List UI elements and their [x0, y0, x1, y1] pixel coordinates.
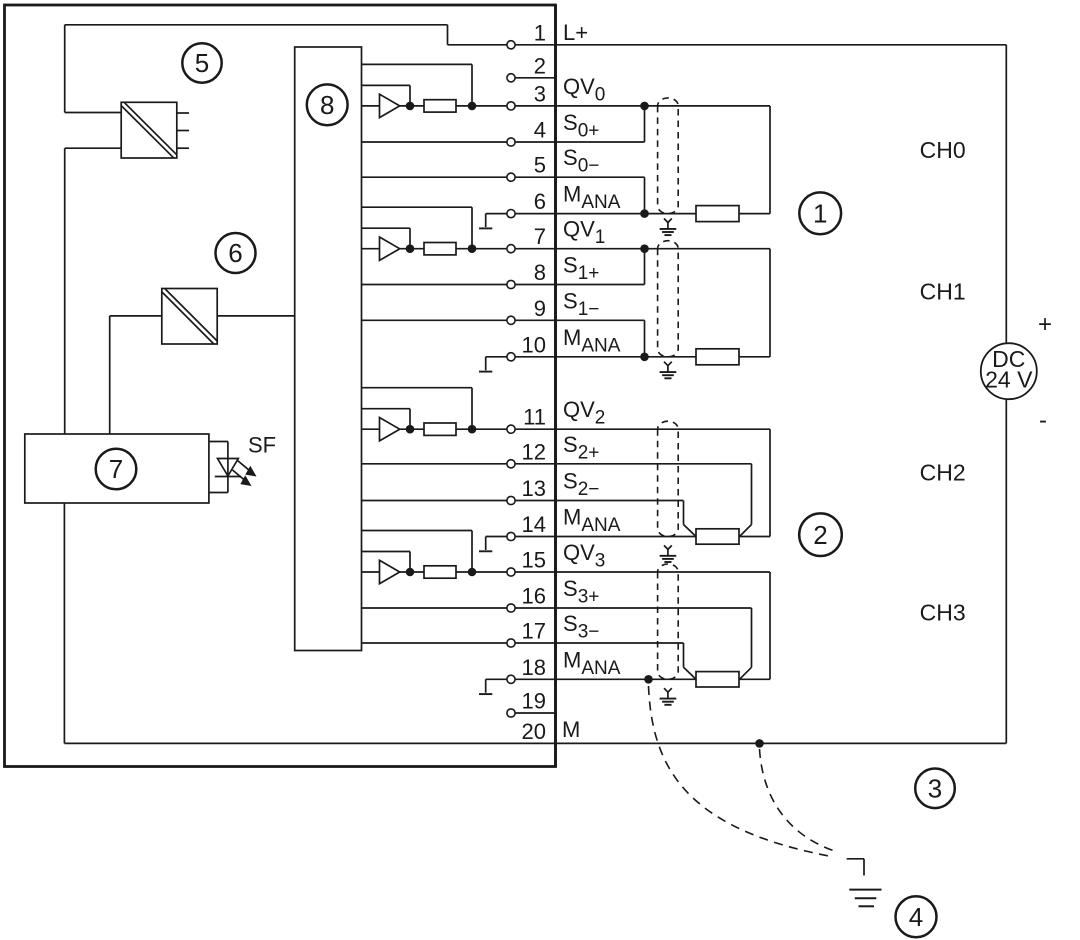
terminal 11 circle — [507, 425, 515, 433]
svg-text:9: 9 — [534, 296, 546, 321]
terminal 19 number — [522, 689, 546, 714]
op-amp CH3 output driver — [380, 560, 425, 583]
svg-text:-: - — [1039, 407, 1047, 434]
wire S0- jumper — [515, 177, 644, 213]
terminal 4 circle — [507, 138, 515, 146]
label S1− terminal 9 — [563, 288, 599, 320]
label MANA terminal 14 — [563, 505, 621, 537]
svg-text:2: 2 — [534, 53, 546, 78]
svg-text:SF: SF — [248, 433, 276, 458]
svg-text:24 V: 24 V — [985, 367, 1033, 393]
svg-text:CH2: CH2 — [920, 459, 966, 485]
terminal 3 circle — [507, 102, 515, 110]
LED arrows — [233, 461, 257, 487]
svg-text:3: 3 — [534, 81, 546, 106]
terminal 14 circle — [507, 532, 515, 540]
terminal 12 circle — [507, 460, 515, 468]
terminal 16 number — [522, 584, 546, 609]
terminal 18 circle — [507, 675, 515, 683]
terminal 9 number — [534, 296, 546, 321]
shield earth CH0 — [660, 219, 677, 236]
wire M bus vertical lower — [63, 503, 65, 743]
module enclosure (analog output module boundary) — [5, 5, 556, 767]
wire sense terminal 12 internal — [362, 463, 507, 465]
wire load CH0 return — [739, 106, 770, 214]
wire sense terminal 4 internal — [362, 141, 507, 143]
junction CH0 amp output — [406, 102, 415, 111]
terminal 7 number — [534, 224, 546, 249]
terminal 13 number — [522, 476, 546, 501]
callout 1 — [799, 192, 841, 234]
terminal 1 number — [534, 20, 546, 45]
terminal 16 circle — [507, 604, 515, 612]
svg-text:15: 15 — [522, 548, 546, 573]
callout 2 — [799, 513, 842, 556]
svg-text:CH3: CH3 — [920, 599, 966, 625]
terminal block edge (module right border) — [554, 5, 557, 767]
svg-text:4: 4 — [534, 118, 546, 143]
label S3+ terminal 16 — [563, 576, 599, 608]
resistor CH1 internal — [424, 243, 456, 255]
svg-text:7: 7 — [534, 224, 546, 249]
DC 24V source — [981, 343, 1037, 399]
terminal 10 number — [522, 332, 546, 357]
resistor CH0 internal — [424, 100, 456, 112]
wire converter 5 lower pin — [65, 147, 122, 149]
svg-text:14: 14 — [522, 512, 546, 537]
svg-text:5: 5 — [534, 153, 546, 178]
wire resistor to terminal — [456, 428, 507, 430]
label CH0 — [920, 137, 966, 163]
resistor CH2 internal — [424, 423, 456, 435]
label M — [562, 717, 580, 742]
earth ground symbol — [849, 890, 881, 907]
wire L+ bus drop to terminal 1 — [447, 25, 449, 45]
junction CH1 output node — [468, 244, 477, 253]
terminal 15 circle — [507, 568, 515, 576]
label S0− terminal 5 — [563, 145, 599, 177]
label MANA terminal 10 — [563, 325, 621, 357]
junction M earth link — [755, 739, 764, 748]
load resistor CH0 — [696, 206, 739, 222]
svg-text:11: 11 — [523, 405, 546, 430]
power supply converter 6 body — [162, 289, 217, 345]
wire QV3 to load — [515, 572, 770, 679]
wire sense terminal 5 internal — [362, 176, 507, 178]
label S3− terminal 17 — [563, 611, 599, 643]
interface box 8 body — [295, 47, 362, 651]
wire L+ bus top — [65, 24, 448, 26]
wire resistor to terminal — [456, 248, 507, 250]
svg-text:5: 5 — [195, 48, 209, 78]
junction MANA earth link — [644, 675, 653, 684]
wire S1- jumper — [515, 320, 644, 357]
svg-text:12: 12 — [522, 439, 546, 464]
junction CH1 amp output — [406, 244, 415, 253]
terminal 10 circle — [507, 353, 515, 361]
internal MANA ground hook terminal 14 — [479, 537, 507, 552]
junction CH3 amp output — [406, 568, 415, 577]
svg-text:4: 4 — [909, 902, 923, 932]
wire M bus vertical upper — [64, 148, 66, 434]
terminal 19 circle — [507, 709, 515, 717]
label L+ — [563, 20, 588, 45]
wire into converter 5 upper pin — [65, 112, 122, 114]
terminal 11 number — [523, 405, 546, 430]
op-amp CH2 output driver — [380, 418, 425, 441]
wire converter 6 left drop to box 7 — [109, 316, 111, 434]
wire L+ bus left vertical — [64, 25, 66, 113]
wire resistor to terminal — [456, 571, 507, 573]
wire QV2 to load — [515, 429, 770, 536]
terminal 20 number — [522, 719, 546, 744]
wire sense terminal 17 internal — [362, 642, 507, 644]
wire MANA CH3 — [515, 678, 696, 680]
wire QV0 to load — [515, 105, 770, 107]
terminal 3 number — [534, 81, 546, 106]
label S2+ terminal 12 — [563, 432, 599, 464]
svg-text:8: 8 — [534, 260, 546, 285]
terminal 2 number — [534, 53, 546, 78]
callout 3 — [915, 769, 955, 809]
terminal 8 circle — [507, 280, 515, 288]
label - — [1039, 407, 1047, 434]
op-amp CH1 output driver — [380, 237, 425, 260]
wire sense terminal 9 internal — [362, 319, 507, 321]
label QV1 terminal 7 — [563, 217, 605, 249]
terminal 13 circle — [507, 496, 515, 504]
junction CH0 output node — [468, 102, 477, 111]
wires DAC channel 1 — [362, 207, 473, 249]
svg-text:16: 16 — [522, 584, 546, 609]
terminal 5 circle — [507, 173, 515, 181]
wire terminal 1 internal — [448, 44, 507, 46]
op-amp CH0 output driver — [380, 94, 425, 117]
load resistor CH3 — [696, 672, 739, 687]
junction CH3 output node — [468, 568, 477, 577]
junction MANA/S0- — [640, 209, 649, 218]
callout 4 — [896, 896, 937, 937]
wire converter 6 right to box 8 — [217, 315, 295, 317]
wire S3+ to load — [515, 608, 751, 679]
terminal 18 number — [522, 655, 546, 680]
terminal 14 number — [522, 512, 546, 537]
load resistor CH1 — [696, 349, 739, 365]
terminal 2 circle — [507, 74, 515, 82]
wire terminal 2 stub — [515, 77, 555, 79]
controller box 7 body — [25, 434, 209, 503]
label QV0 terminal 3 — [563, 74, 605, 106]
internal MANA ground hook terminal 6 — [479, 214, 507, 229]
label S2− terminal 13 — [563, 469, 599, 501]
resistor CH3 internal — [424, 566, 456, 578]
wire L+ external — [515, 44, 1006, 46]
terminal 17 number — [522, 619, 546, 644]
internal MANA ground hook terminal 10 — [479, 357, 507, 372]
converter 5 output pins — [177, 113, 189, 148]
label SF — [248, 433, 276, 458]
svg-text:18: 18 — [522, 655, 546, 680]
wire S2- to load — [515, 501, 696, 537]
svg-text:1: 1 — [813, 199, 827, 229]
svg-text:8: 8 — [320, 90, 334, 120]
load resistor CH2 — [696, 529, 739, 544]
label CH1 — [920, 279, 966, 305]
svg-text:10: 10 — [522, 332, 546, 357]
shield earth CH2 — [660, 545, 677, 562]
svg-text:7: 7 — [109, 454, 123, 484]
cable shield CH3 — [658, 564, 679, 679]
wire MANA CH0 — [515, 213, 696, 215]
cable shield CH1 — [658, 241, 679, 357]
wires DAC channel 2 — [362, 388, 473, 430]
label CH2 — [920, 459, 966, 485]
svg-text:CH0: CH0 — [920, 137, 966, 163]
label MANA terminal 6 — [563, 182, 621, 214]
svg-text:2: 2 — [813, 520, 827, 550]
label CH3 — [920, 599, 966, 625]
terminal 4 number — [534, 118, 546, 143]
junction QV0/S0+ — [640, 102, 649, 111]
wire supply bus lower — [1005, 399, 1007, 743]
wire S3- to load — [515, 643, 696, 679]
wire S0+ jumper — [515, 106, 644, 142]
junction MANA/S1- — [640, 353, 649, 362]
wire sense terminal 13 internal — [362, 500, 507, 502]
earth lead solid corner — [847, 859, 864, 876]
terminal 1 circle — [507, 41, 515, 49]
terminal 8 number — [534, 260, 546, 285]
terminal 6 circle — [507, 210, 515, 218]
junction CH2 amp output — [406, 425, 415, 434]
wire QV1 to load — [515, 248, 770, 250]
internal MANA ground hook terminal 18 — [479, 679, 507, 694]
dashed earth lead from M — [760, 749, 837, 852]
wire sense terminal 8 internal — [362, 284, 507, 286]
power supply converter 5 body — [121, 102, 177, 158]
callout 5 — [182, 43, 221, 82]
terminal 17 circle — [507, 639, 515, 647]
shield earth CH1 — [660, 362, 677, 379]
wire resistor to terminal — [456, 105, 507, 107]
svg-text:1: 1 — [534, 20, 546, 45]
wire sense terminal 16 internal — [362, 607, 507, 609]
cable shield CH2 — [658, 421, 679, 536]
svg-text:17: 17 — [522, 619, 546, 644]
wires DAC channel 3 — [362, 531, 473, 573]
cable shield CH0 — [658, 98, 679, 214]
svg-text:M: M — [562, 717, 580, 742]
svg-text:13: 13 — [522, 476, 546, 501]
terminal 7 circle — [507, 245, 515, 253]
dashed earth lead from MANA — [649, 686, 835, 857]
svg-text:3: 3 — [928, 774, 942, 804]
label QV3 terminal 15 — [563, 540, 605, 572]
svg-text:20: 20 — [522, 719, 546, 744]
svg-text:6: 6 — [228, 238, 242, 268]
wire terminal 19 stub — [515, 712, 555, 714]
terminal 5 number — [534, 153, 546, 178]
terminal 6 number — [534, 189, 546, 214]
svg-text:L+: L+ — [563, 20, 588, 45]
terminal 12 number — [522, 439, 546, 464]
svg-text:CH1: CH1 — [920, 279, 966, 305]
wire M bus bottom (terminal 20 / M line) — [64, 742, 1006, 744]
svg-text:19: 19 — [522, 689, 546, 714]
label S0+ terminal 4 — [563, 110, 599, 142]
junction CH2 output node — [468, 425, 477, 434]
callout 6 — [216, 233, 256, 273]
wire MANA CH1 — [515, 356, 696, 358]
wire load CH1 return — [739, 249, 770, 357]
shield earth CH3 — [660, 688, 677, 705]
label MANA terminal 18 — [563, 647, 621, 679]
wire LED loop — [209, 442, 228, 493]
wires DAC channel 0 — [362, 64, 473, 106]
terminal 15 number — [522, 548, 546, 573]
label + — [1038, 311, 1052, 338]
wire supply bus upper — [1005, 45, 1007, 343]
label S1+ terminal 8 — [563, 253, 599, 285]
junction QV1/S1+ — [640, 244, 649, 253]
wire S1+ jumper — [515, 249, 644, 285]
wire converter 6 left — [110, 315, 162, 317]
callout 8 — [307, 84, 348, 125]
svg-text:6: 6 — [534, 189, 546, 214]
label QV2 terminal 11 — [563, 397, 605, 429]
callout 7 — [96, 449, 137, 490]
wire MANA CH2 — [515, 536, 696, 538]
LED diode SF — [215, 459, 241, 477]
terminal 9 circle — [507, 316, 515, 324]
svg-text:+: + — [1038, 311, 1052, 338]
wire S2+ to load — [515, 464, 751, 537]
